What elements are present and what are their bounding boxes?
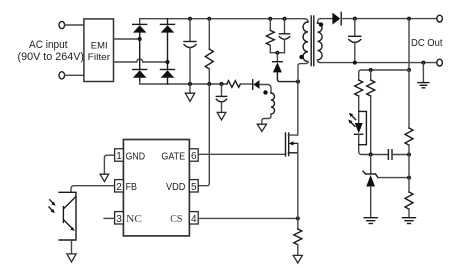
node output cap top [353,17,357,21]
svg-text:DC Out: DC Out [411,37,443,49]
top output rail [341,18,437,20]
svg-text:6: 6 [191,151,197,162]
wire [276,53,278,62]
pin 5 box [189,180,198,192]
wire [65,74,84,76]
svg-text:1: 1 [116,151,122,162]
CS resistor R8 [294,218,302,255]
FB pin wire [71,186,115,193]
optocoupler LED [355,123,363,152]
ground arrow under C1 [185,84,194,101]
pin 1 box [115,149,124,161]
light arrows into phototransistor [49,200,56,213]
wire R1 down to VDD pin5 [198,84,209,186]
aux winding L1 [271,93,275,114]
svg-text:NC: NC [126,213,142,225]
divider bar [359,70,409,80]
wire jog to aux ground [262,114,271,124]
controller IC U1 [123,140,189,236]
svg-text:CS: CS [170,213,182,225]
transformer core [310,16,312,66]
startup resistor R1 [205,17,213,86]
node drain/primary [296,80,300,84]
wire to LED [358,96,360,123]
svg-text:3: 3 [116,214,122,225]
optocoupler phototransistor Q1 [59,192,76,240]
wire [65,24,84,26]
bottom output rail [318,60,437,63]
transformer secondary [318,19,323,63]
snubber resistor R3 [266,17,274,53]
ground arrow GND pin [100,174,109,181]
bulk capacitor C1 [184,17,196,86]
svg-text:Filter: Filter [88,52,110,63]
VDD capacitor C2 [216,82,226,120]
wire EMI out 2 with hop over left bridge column [114,59,168,62]
svg-text:2: 2 [116,182,122,193]
snubber bottom bar [270,52,284,54]
pin 3 box [115,212,124,224]
comp node bar with cap [359,152,389,155]
aux diode D5 (points left) [253,80,260,89]
svg-text:EMI: EMI [91,41,108,52]
output diode D7 (points right) [332,12,341,24]
divider resistor R6 (upper) [405,70,413,155]
wire secondary to output diode [321,18,333,20]
EMI filter block [84,19,114,82]
svg-text:GND: GND [126,151,146,163]
emitter wire down [71,240,73,254]
resistor R4 (LED series) [355,80,363,96]
snubber capacitor C3 [279,17,289,53]
secondary polarity dot [319,22,323,26]
top rail [140,19,305,25]
LED bracket [359,111,367,144]
pin 6 box [189,149,198,161]
DC Out - terminal [437,59,443,66]
wire into aux winding [260,85,272,94]
feedback sense line from DC+ [408,19,410,70]
transformer primary [298,19,308,82]
shunt regulator U2 (TL431 zener style) [363,155,378,218]
bridge diode D3 (bottom-left) [133,39,147,80]
ground arrow emitter [67,254,76,262]
node feedback tap [407,17,411,21]
GATE pin wire [198,153,286,155]
primary polarity dot [299,55,303,59]
bridge diode D2 (top-right) [161,19,175,62]
resistor R5 (bias) [367,70,375,155]
LED emission arrows [348,113,355,127]
ground arrow aux [257,124,266,131]
comp capacitor C5 [387,150,389,160]
output capacitor C4 [349,19,361,63]
svg-text:AC input: AC input [29,39,68,51]
earth ground TL431 [364,218,377,224]
svg-text:FB: FB [126,181,137,193]
pin 4 box [189,212,198,224]
CS pin wire [198,217,298,219]
node: EMI line1 to left column [138,37,142,41]
earth ground R7 [403,218,416,224]
AC input terminal bottom [59,72,65,79]
ref line [378,177,409,179]
svg-text:GATE: GATE [161,151,185,163]
aux resistor R2 (horizontal) [227,81,241,88]
wire [240,83,252,85]
svg-text:5: 5 [191,182,197,193]
earth ground DC- [418,63,429,88]
svg-text:VDD: VDD [166,181,186,193]
pin 2 box [115,180,124,192]
GND pin wire to arrow ground [104,155,114,174]
divider resistor R7 (lower) [405,155,413,218]
MOSFET Q2 [286,82,298,219]
node: EMI line2 to right column [166,60,170,64]
ground arrow CS [293,255,302,263]
svg-text:(90V to 264V): (90V to 264V) [18,51,85,63]
wire EMI out 1 [114,38,140,40]
AC input terminal top [59,21,65,28]
snubber diode D6 (points up) [273,62,298,82]
DC Out + terminal [437,15,443,22]
bottom rail [140,80,227,84]
bridge diode D4 (bottom-right) [161,62,175,84]
bridge diode D1 (top-left) [133,24,147,39]
svg-text:4: 4 [191,214,197,225]
NC stub [104,217,115,219]
aux winding polarity dot [263,90,267,94]
